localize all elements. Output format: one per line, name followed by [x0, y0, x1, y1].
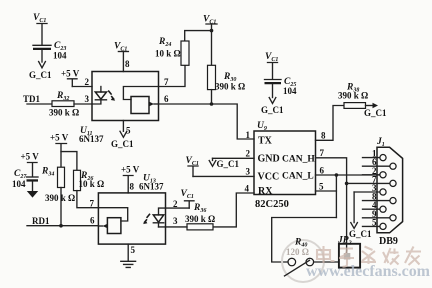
node V_C1 (82C250 VCC): [186, 156, 199, 176]
DB9 pin 5: [363, 217, 387, 229]
svg-text:8: 8: [130, 182, 135, 192]
svg-text:6N137: 6N137: [139, 182, 164, 192]
svg-text:TD1: TD1: [23, 94, 41, 104]
svg-text:3: 3: [246, 167, 251, 177]
svg-text:390 k Ω: 390 k Ω: [185, 214, 215, 224]
svg-text:6: 6: [90, 216, 95, 226]
svg-text:5: 5: [126, 126, 131, 136]
wire CAN_L down to termination: [335, 175, 337, 218]
svg-text:G_C1: G_C1: [349, 229, 372, 239]
junction CAN_L: [335, 173, 339, 177]
detector box inside U11: [131, 97, 149, 114]
wire CAN_L to DB9 pin2: [316, 174, 380, 176]
svg-text:www.elecfans.com: www.elecfans.com: [306, 263, 431, 280]
resistor R26: [74, 170, 105, 207]
svg-text:4: 4: [245, 184, 250, 194]
svg-text:G_C1: G_C1: [364, 108, 387, 118]
DB9 pin 3: [354, 183, 386, 195]
junction RD1/R34: [59, 224, 63, 228]
wire +5V to U11 pin2: [72, 86, 92, 88]
JP2 internal pin: [346, 244, 348, 253]
svg-text:3: 3: [85, 94, 90, 104]
wire R32 to U11 pin3: [74, 103, 92, 105]
svg-text:7: 7: [320, 148, 325, 158]
svg-text:6N137: 6N137: [79, 134, 104, 144]
svg-text:7: 7: [164, 77, 169, 87]
svg-text:390 k Ω: 390 k Ω: [49, 108, 79, 118]
wire V_C1 to U11 pin 8: [122, 52, 124, 72]
power +5V (above U13 pin 8): [121, 165, 140, 193]
internal enable wire U13 (pin7 to detector): [98, 208, 127, 221]
svg-text:82C250: 82C250: [255, 199, 289, 210]
svg-text:6: 6: [164, 94, 169, 104]
svg-text:+5 V: +5 V: [61, 69, 80, 79]
svg-text:390 k Ω: 390 k Ω: [45, 193, 75, 203]
ground G_C1 (after R38, right arrow): [364, 103, 387, 118]
DB9 pin 9: [363, 209, 397, 221]
jumper JP2 box: [339, 244, 360, 268]
node V_C1 (U13 pin2): [181, 189, 195, 208]
power +5V (to U11 pin 2): [61, 69, 80, 87]
wire U11 pin6 inside: [154, 103, 159, 105]
wire 82C250 pin5: [316, 190, 337, 192]
svg-text:120 Ω: 120 Ω: [286, 247, 309, 257]
detector box inside U13: [107, 218, 121, 234]
svg-text:G_C1: G_C1: [29, 70, 52, 80]
capacitor C25: [265, 77, 298, 96]
internal enable wire U11 (pin 7 to detector): [123, 87, 158, 100]
watermark circle: [282, 240, 324, 282]
svg-text:10 k Ω: 10 k Ω: [79, 179, 105, 189]
opto-coupler U13 box: [98, 193, 165, 244]
wire termination top: [272, 218, 337, 263]
svg-text:390 k Ω: 390 k Ω: [338, 91, 368, 101]
DB9 pin 6: [363, 157, 397, 169]
svg-text:GND: GND: [258, 154, 280, 165]
jumper pad right: [306, 258, 314, 266]
jumper lever: [285, 260, 310, 276]
wire pad to JP2: [314, 261, 339, 263]
node V_C1 (above C25): [265, 52, 278, 79]
wire RD1: [27, 225, 98, 227]
svg-text:10 k Ω: 10 k Ω: [155, 49, 181, 59]
svg-text:TX: TX: [258, 136, 273, 147]
svg-text:6: 6: [320, 166, 325, 176]
wire TD1 to R32: [27, 103, 52, 105]
ground G_C1 (under C25): [261, 98, 284, 116]
ground G_C1 (arrow under C23): [29, 62, 52, 81]
connector DB9 outline: [377, 147, 403, 233]
wire U11 pin6 to TX (node): [159, 104, 255, 139]
CAN transceiver U9 82C250 box: [254, 131, 316, 195]
photon arrows U11: [108, 91, 115, 101]
node V_C1 (top-left supply): [33, 13, 47, 45]
DB9 pin 1: [363, 149, 387, 161]
output arrow U11 pin 6: [149, 102, 154, 107]
svg-text:2: 2: [85, 77, 90, 87]
svg-text:390 k Ω: 390 k Ω: [215, 82, 245, 92]
svg-text:RX: RX: [258, 186, 273, 197]
svg-text:+5 V: +5 V: [50, 133, 69, 143]
DB9 pin 7: [347, 174, 397, 186]
wire +5V branch to R26: [61, 152, 77, 171]
wire U13 pin2 to V_C1: [166, 207, 190, 209]
watermark text chinese: [317, 246, 421, 267]
wire V_C1 to R24 top: [185, 31, 212, 41]
svg-text:2: 2: [246, 149, 251, 159]
svg-text:VCC: VCC: [258, 172, 280, 183]
svg-text:104: 104: [283, 86, 297, 96]
pin 5 stem U11: [122, 121, 124, 132]
resistor R36: [185, 203, 215, 230]
junction R30/pin6: [210, 102, 214, 106]
capacitor C23: [33, 41, 67, 61]
resistor R24: [155, 37, 189, 65]
svg-text:5: 5: [131, 245, 136, 255]
jumper pad left: [288, 258, 296, 266]
photon arrows U13: [143, 214, 150, 224]
wire U11 pin7 to R24: [159, 65, 186, 86]
wire 82C250 pin4 (RX) to R36: [213, 193, 254, 227]
ground (under C27, solid arrow): [27, 182, 38, 198]
node V_C1 (top, feeds R24/R30): [203, 15, 217, 31]
ground G_C1 (82C250 pin2): [209, 158, 239, 169]
svg-text:104: 104: [12, 179, 26, 189]
output arrow U13 pin 6: [103, 224, 108, 229]
svg-text:104: 104: [53, 51, 67, 61]
wire C23 to ground: [41, 50, 43, 62]
wire 82C250 pin2 (GND): [213, 157, 255, 159]
resistor R32: [49, 91, 79, 118]
wire CAN_H to DB9/JP2: [316, 158, 347, 244]
power +5V (above R34): [50, 133, 69, 168]
wire R36 to U13 pin3: [159, 226, 188, 228]
resistor R30: [208, 31, 246, 104]
svg-text:RD1: RD1: [32, 216, 50, 226]
svg-text:5: 5: [319, 182, 324, 192]
svg-text:G_C1: G_C1: [217, 159, 240, 169]
DB9 pin 4: [363, 200, 387, 212]
wire pin6 inside U13: [98, 225, 102, 227]
resistor R38: [338, 83, 368, 109]
capacitor C27: [12, 169, 38, 189]
svg-text:8: 8: [321, 131, 326, 141]
svg-text:1: 1: [246, 130, 251, 140]
op-to-coupler U11 box: [92, 72, 159, 121]
svg-text:3: 3: [173, 216, 178, 226]
wire V_C1 to 82C250 pin3: [193, 175, 254, 177]
wire 82C250 pin8 to R38: [316, 106, 345, 141]
node V_C1 (above U11 pin 8): [114, 42, 128, 53]
pin 5 stem U13: [127, 244, 129, 261]
ground G_C1 (DB9 pin3): [349, 223, 372, 239]
DB9 pin 2: [363, 166, 387, 178]
svg-text:G_C1: G_C1: [111, 139, 134, 149]
ground (earth) under U13 pin5: [121, 261, 136, 267]
svg-text:G_C1: G_C1: [261, 105, 284, 115]
junction V_C1/R24/R30: [210, 29, 214, 33]
power +5V (above C27): [21, 152, 40, 177]
DB9 pin 8: [363, 192, 397, 204]
LED inside U13: [153, 208, 165, 227]
svg-text:7: 7: [90, 199, 95, 209]
svg-text:CAN_H: CAN_H: [282, 155, 315, 165]
svg-text:DB9: DB9: [379, 236, 398, 247]
LED inside U11: [92, 87, 107, 105]
wire C25 to ground: [272, 84, 274, 97]
svg-text:+5 V: +5 V: [21, 152, 40, 162]
ground G_C1 (under U11 pin 5): [111, 126, 134, 150]
svg-text:+5 V: +5 V: [121, 165, 140, 175]
junction CAN_H / DB9 pin7: [345, 182, 349, 186]
wire DB9 pin3 to ground: [353, 192, 355, 223]
svg-text:8: 8: [125, 59, 130, 69]
svg-text:CAN_L: CAN_L: [282, 172, 314, 182]
resistor R34: [41, 167, 75, 226]
